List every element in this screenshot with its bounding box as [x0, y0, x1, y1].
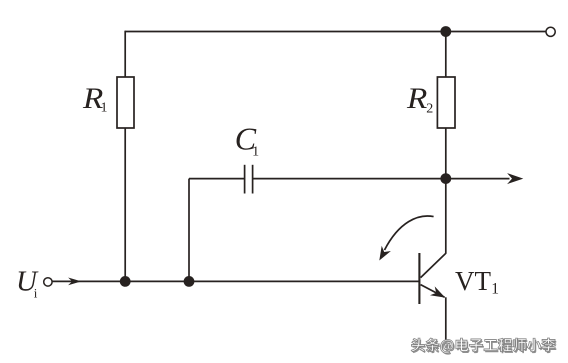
svg-text:1: 1	[491, 281, 499, 298]
svg-text:R: R	[406, 82, 427, 115]
svg-text:1: 1	[101, 101, 108, 116]
svg-text:i: i	[34, 286, 38, 301]
svg-text:2: 2	[426, 102, 433, 117]
svg-text:VT: VT	[455, 266, 491, 296]
svg-text:1: 1	[252, 144, 259, 159]
